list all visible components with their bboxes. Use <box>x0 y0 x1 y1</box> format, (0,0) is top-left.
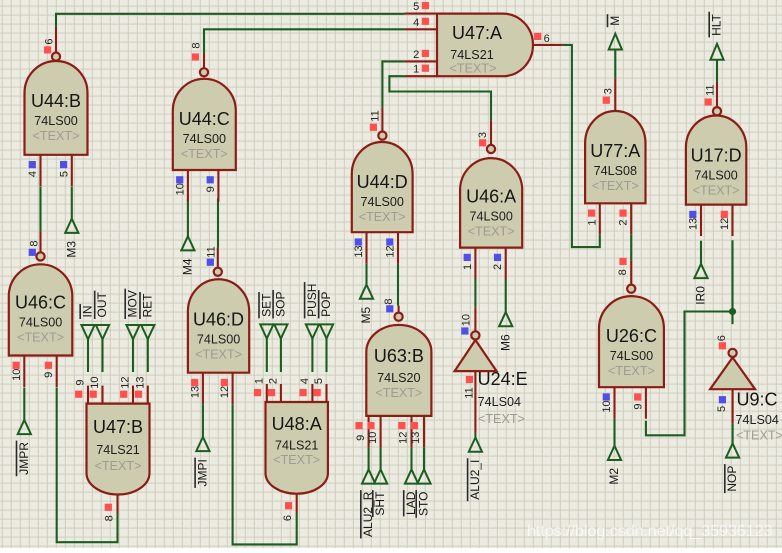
node JMPI tag <box>195 437 209 488</box>
svg-text:1: 1 <box>413 64 419 76</box>
svg-text:M2: M2 <box>607 468 621 485</box>
nand gate U26:C <box>599 258 664 419</box>
nand gate U46:C <box>9 231 73 387</box>
svg-text:<TEXT>: <TEXT> <box>181 147 228 161</box>
svg-text:3: 3 <box>477 132 489 138</box>
node PUSH tag <box>305 282 319 339</box>
node M6 tag <box>498 312 512 351</box>
node MOV tag <box>125 289 139 340</box>
wire U63:B.12 to tag LAD <box>410 447 412 469</box>
wire net U9:C.6 junction to U17:D.12 and U26:C.9 <box>731 240 733 324</box>
svg-text:M3: M3 <box>64 241 78 258</box>
svg-text:<TEXT>: <TEXT> <box>33 129 80 143</box>
svg-text:12: 12 <box>219 386 231 398</box>
node LAD tag <box>404 469 418 516</box>
node HLT tag <box>709 12 723 60</box>
svg-text:U44:C: U44:C <box>179 109 230 129</box>
node M5 tag <box>359 285 373 324</box>
svg-text:11: 11 <box>206 246 218 257</box>
wire tag OUT to U47:B.10 <box>101 339 103 372</box>
svg-text:8: 8 <box>28 240 40 246</box>
wire U44:B.6 to U47:A.5 <box>56 14 405 28</box>
svg-text:U44:D: U44:D <box>357 172 408 192</box>
svg-text:U77:A: U77:A <box>590 141 640 161</box>
svg-text:<TEXT>: <TEXT> <box>17 331 64 345</box>
wire U17:D.13 to tag IR0 <box>700 241 702 264</box>
svg-text:10: 10 <box>367 432 379 444</box>
svg-text:74LS00: 74LS00 <box>694 169 737 183</box>
wire U46:C.10 to tag JMPR <box>23 388 25 420</box>
svg-text:74LS21: 74LS21 <box>275 439 318 453</box>
and gate U77:A (74LS08) <box>585 78 645 235</box>
svg-text:12: 12 <box>719 218 731 230</box>
svg-text:1: 1 <box>462 264 474 270</box>
svg-text:U24:E: U24:E <box>478 369 528 389</box>
wire U46:C.9 to U47:B.8 loop <box>57 388 118 543</box>
svg-text:6: 6 <box>282 515 294 521</box>
svg-text:10: 10 <box>11 369 23 381</box>
svg-text:<TEXT>: <TEXT> <box>468 224 515 238</box>
svg-text:11: 11 <box>463 387 475 398</box>
svg-text:<TEXT>: <TEXT> <box>478 412 525 426</box>
svg-text:10: 10 <box>601 400 613 412</box>
node ALU2_R tag <box>361 469 375 538</box>
wire U44:D.12 to U63:B.8 <box>397 264 399 306</box>
nand gate U46:A <box>460 121 522 279</box>
svg-text:13: 13 <box>688 218 700 230</box>
svg-text:5: 5 <box>313 378 325 384</box>
node IN tag <box>80 304 94 339</box>
svg-text:74LS00: 74LS00 <box>469 209 512 223</box>
wire U44:C.10 to tag M4 <box>187 198 189 236</box>
svg-text:5: 5 <box>58 171 70 177</box>
svg-text:12: 12 <box>398 432 410 444</box>
svg-text:6: 6 <box>43 38 55 44</box>
wire U46:D.12 to U48:A.6 loop <box>233 404 297 544</box>
svg-text:RET: RET <box>140 293 154 318</box>
svg-text:13: 13 <box>134 376 146 388</box>
wire U26:C.10 to tag M2 <box>613 419 615 446</box>
wire U17:D.11 to tag HLT <box>716 60 718 82</box>
node IR0 tag <box>694 264 708 305</box>
wire U46:A.2 to tag M6 <box>505 279 507 312</box>
wire tag IN to U47:B.9 <box>87 339 89 372</box>
svg-text:10: 10 <box>174 183 186 195</box>
svg-text:4: 4 <box>413 17 419 29</box>
svg-text:M: M <box>608 16 622 26</box>
svg-text:U44:B: U44:B <box>31 91 81 111</box>
nand gate U44:D <box>352 108 413 264</box>
svg-text:PUSH: PUSH <box>305 284 319 317</box>
svg-text:13: 13 <box>410 432 422 444</box>
svg-text:8: 8 <box>191 42 203 48</box>
svg-text:<TEXT>: <TEXT> <box>95 459 142 473</box>
svg-text:<TEXT>: <TEXT> <box>375 386 422 400</box>
svg-text:74LS00: 74LS00 <box>183 132 226 146</box>
wire U44:C.8 to U47:A.4 <box>204 29 405 53</box>
svg-text:M6: M6 <box>498 334 512 351</box>
node RET tag <box>140 292 154 339</box>
svg-text:11: 11 <box>369 110 381 121</box>
svg-text:<TEXT>: <TEXT> <box>359 210 406 224</box>
wire U47:A.6 to U77:A.1 <box>563 45 600 247</box>
wire U63:B.13 to tag STO <box>423 447 425 469</box>
svg-text:2: 2 <box>413 49 419 61</box>
svg-text:SHT: SHT <box>373 491 387 516</box>
svg-text:U46:C: U46:C <box>15 293 66 313</box>
node JMPR tag <box>17 420 31 476</box>
inverter U9:C (74LS04) <box>710 335 782 442</box>
svg-text:74LS21: 74LS21 <box>450 48 493 62</box>
svg-text:13: 13 <box>353 245 365 257</box>
wire tag SOP to U48:A.2 <box>280 339 282 372</box>
svg-text:74LS08: 74LS08 <box>594 164 637 178</box>
4-input and gate U47:A (74LS21) horizontal <box>405 1 563 76</box>
wire U44:D.13 to tag M5 <box>365 264 367 285</box>
svg-text:9: 9 <box>632 403 644 409</box>
wire U44:B.4 to U46:C.8 <box>39 187 41 232</box>
svg-text:IR0: IR0 <box>694 286 708 305</box>
node SHT tag <box>373 469 387 517</box>
svg-text:U46:A: U46:A <box>466 186 516 206</box>
wire U63:B.10 to tag SHT <box>380 447 382 469</box>
4-input and gate U48:A (74LS21) pointing down <box>253 378 328 521</box>
svg-text:2: 2 <box>492 264 504 270</box>
wire tag POP to U48:A.5 <box>325 339 327 372</box>
svg-text:12: 12 <box>120 376 132 388</box>
inverter U24:E (74LS04) <box>455 307 528 433</box>
svg-text:10: 10 <box>460 314 472 326</box>
svg-text:OUT: OUT <box>95 292 109 318</box>
svg-text:U46:D: U46:D <box>193 309 244 329</box>
wire U9:C.5 to tag NOP <box>732 424 734 444</box>
wire tag RET to U47:B.13 <box>147 339 149 372</box>
svg-text:3: 3 <box>602 88 614 94</box>
svg-text:M4: M4 <box>181 258 195 275</box>
wire tag PUSH to U48:A.4 <box>311 339 313 372</box>
svg-text:JMPR: JMPR <box>17 442 31 475</box>
svg-text:M5: M5 <box>359 306 373 323</box>
svg-text:74LS00: 74LS00 <box>360 195 403 209</box>
svg-text:9: 9 <box>205 186 217 192</box>
svg-text:1: 1 <box>253 378 265 384</box>
svg-text:MOV: MOV <box>126 290 140 317</box>
svg-text:<TEXT>: <TEXT> <box>736 429 782 443</box>
svg-text:U48:A: U48:A <box>272 414 322 434</box>
wire U46:D.13 to tag JMPI <box>202 404 204 437</box>
node NOP tag <box>725 443 739 493</box>
svg-text:2: 2 <box>267 378 279 384</box>
svg-text:10: 10 <box>89 376 101 388</box>
wire U44:D.11 to U47:A.2 <box>382 61 404 107</box>
wire U46:A.3 to U47:A.1 <box>389 76 491 121</box>
nand gate U44:B <box>25 28 88 187</box>
svg-text:74LS21: 74LS21 <box>96 443 139 457</box>
4-input and gate U47:B (74LS21) pointing down <box>75 376 150 521</box>
svg-text:74LS00: 74LS00 <box>19 316 62 330</box>
node SOP tag <box>273 290 287 339</box>
svg-text:9: 9 <box>43 372 55 378</box>
nand gate U17:D <box>686 82 746 236</box>
svg-text:STO: STO <box>417 492 431 516</box>
node ALU2_I tag <box>468 438 482 502</box>
svg-text:U47:A: U47:A <box>452 23 502 43</box>
svg-text:9: 9 <box>75 380 87 386</box>
svg-text:74LS00: 74LS00 <box>197 332 240 346</box>
svg-text:4: 4 <box>299 378 311 384</box>
wire tag SET to U48:A.1 <box>266 339 268 372</box>
svg-text:2: 2 <box>618 220 630 226</box>
svg-text:5: 5 <box>413 1 419 13</box>
svg-text:<TEXT>: <TEXT> <box>195 347 242 361</box>
node SET tag <box>259 292 273 339</box>
node OUT tag <box>95 291 109 340</box>
wire U44:B.5 to tag M3 <box>71 187 73 219</box>
svg-text:4: 4 <box>27 171 39 177</box>
svg-text:U9:C: U9:C <box>737 390 778 410</box>
svg-text:HLT: HLT <box>710 13 724 35</box>
node M3 tag <box>64 219 78 258</box>
svg-text:POP: POP <box>319 292 333 317</box>
node M tag <box>608 14 622 49</box>
nand gate U44:C <box>173 42 236 201</box>
nand gate U46:D <box>188 246 249 404</box>
svg-text:6: 6 <box>716 335 728 341</box>
svg-text:74LS00: 74LS00 <box>34 114 77 128</box>
wire U63:B.9 to tag ALU2_R <box>368 447 370 469</box>
svg-text:U26:C: U26:C <box>606 326 657 346</box>
svg-text:SOP: SOP <box>274 292 288 317</box>
svg-text:<TEXT>: <TEXT> <box>592 179 639 193</box>
svg-text:8: 8 <box>617 269 629 275</box>
svg-text:74LS00: 74LS00 <box>610 349 653 363</box>
svg-text:11: 11 <box>705 84 717 95</box>
svg-text:JMPI: JMPI <box>196 459 210 486</box>
nand gate U63:B (74LS20 4-input) <box>355 298 432 447</box>
svg-text:U17:D: U17:D <box>691 146 742 166</box>
svg-text:6: 6 <box>544 33 550 45</box>
wire U24:E.10 to U46:A.1 <box>474 279 476 307</box>
svg-text:1: 1 <box>586 220 598 226</box>
svg-text:U47:B: U47:B <box>93 417 143 437</box>
svg-text:<TEXT>: <TEXT> <box>450 62 497 76</box>
svg-text:8: 8 <box>383 298 395 304</box>
node POP tag <box>319 290 333 339</box>
svg-text:12: 12 <box>385 245 397 257</box>
wire U24:E.11 to tag ALU2_I <box>474 433 476 438</box>
svg-text:9: 9 <box>355 435 367 441</box>
wire tag MOV to U47:B.12 <box>132 339 134 372</box>
node M4 tag <box>181 236 195 275</box>
wire U77:A.3 to tag M <box>614 49 616 79</box>
svg-text:IN: IN <box>81 306 95 318</box>
svg-text:74LS04: 74LS04 <box>736 413 779 427</box>
svg-text:<TEXT>: <TEXT> <box>608 364 655 378</box>
node STO tag <box>416 469 430 517</box>
svg-text:NOP: NOP <box>725 466 739 492</box>
wire U26:C.8 to U77:A.2 <box>630 235 632 260</box>
svg-text:ALU2_I: ALU2_I <box>468 460 482 500</box>
svg-text:https://blog.csdn.net/qq_35936: https://blog.csdn.net/qq_35936123 <box>527 523 773 540</box>
svg-text:74LS04: 74LS04 <box>478 395 521 409</box>
svg-text:8: 8 <box>104 515 116 521</box>
svg-text:<TEXT>: <TEXT> <box>273 453 320 467</box>
svg-text:SET: SET <box>259 293 273 317</box>
wire U44:C.9 to U46:D.11 <box>217 198 219 247</box>
node M2 tag <box>607 446 621 485</box>
junction dot <box>729 308 736 315</box>
svg-text:U63:B: U63:B <box>374 346 424 366</box>
svg-text:<TEXT>: <TEXT> <box>693 184 740 198</box>
svg-text:13: 13 <box>189 386 201 398</box>
svg-text:74LS20: 74LS20 <box>377 371 420 385</box>
svg-text:5: 5 <box>716 406 728 412</box>
